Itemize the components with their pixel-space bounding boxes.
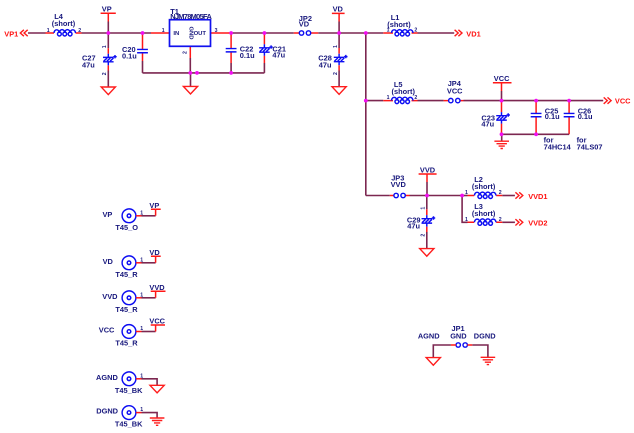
- inductor L4 (short): [46, 12, 82, 36]
- svg-text:IN: IN: [173, 31, 179, 37]
- svg-text:74HC14: 74HC14: [544, 143, 572, 152]
- junction C23 rail: [500, 132, 504, 136]
- net VVD label at testpoint: [149, 283, 165, 298]
- capacitor C29 47u: [407, 196, 435, 249]
- junction VD tap: [337, 31, 341, 35]
- svg-text:VCC: VCC: [615, 97, 631, 106]
- ground DGND at JP1: [481, 357, 496, 364]
- svg-text:(short): (short): [472, 182, 496, 191]
- wire VP1 to L4: [28, 32, 46, 34]
- wire branch corner to JP3: [366, 195, 390, 197]
- wire L5 to JP4: [418, 100, 444, 102]
- wire L1 to VD1: [418, 32, 455, 34]
- net VD power tap: [332, 5, 345, 33]
- label for 74LS07: [577, 135, 603, 151]
- svg-text:T45_O: T45_O: [115, 223, 138, 232]
- svg-text:2: 2: [183, 51, 189, 54]
- label for 74HC14: [544, 135, 572, 151]
- off-page connector VD1: [455, 29, 481, 38]
- wire vertical branch: [365, 33, 367, 196]
- svg-text:DGND: DGND: [474, 331, 496, 340]
- svg-text:VP1: VP1: [4, 29, 18, 38]
- inductor L2 (short): [462, 175, 502, 199]
- svg-text:VVD: VVD: [391, 180, 407, 189]
- svg-text:0.1u: 0.1u: [240, 51, 255, 60]
- junction rail C22: [229, 71, 233, 75]
- junction L2/L3 branch: [460, 194, 464, 198]
- jumper JP4 VCC: [444, 79, 464, 103]
- svg-text:VVD: VVD: [420, 165, 436, 174]
- svg-text:VVD: VVD: [149, 283, 165, 292]
- svg-text:VD: VD: [299, 19, 310, 28]
- wire JP4 to VCC off-page: [464, 100, 604, 102]
- svg-text:1: 1: [387, 95, 390, 101]
- ground at C23: [494, 134, 509, 148]
- net VD label at testpoint: [149, 248, 160, 263]
- capacitor C28 47u: [318, 33, 347, 87]
- svg-text:1: 1: [465, 217, 468, 223]
- svg-text:1: 1: [421, 207, 427, 210]
- svg-text:2: 2: [499, 217, 502, 223]
- svg-text:3: 3: [215, 28, 218, 34]
- wire JP1 to DGND ground: [472, 345, 488, 357]
- svg-text:DGND: DGND: [96, 407, 118, 416]
- svg-text:VVD: VVD: [102, 292, 118, 301]
- testpoint DGND T45_BK: [96, 406, 157, 429]
- testpoint VD T45_R: [103, 256, 156, 279]
- svg-text:0.1u: 0.1u: [578, 112, 593, 121]
- wire L3 to VVD2: [502, 221, 515, 223]
- wire branch to L5: [366, 100, 384, 102]
- off-page connector VVD1: [515, 192, 547, 201]
- junction VP tap: [106, 31, 110, 35]
- svg-text:T45_BK: T45_BK: [115, 420, 143, 429]
- svg-text:47u: 47u: [272, 51, 285, 60]
- svg-text:T45_R: T45_R: [115, 305, 138, 314]
- wire JP3 to L2/L3 branch: [410, 195, 463, 197]
- wire C23 ground rail: [502, 133, 570, 135]
- svg-text:2: 2: [414, 28, 417, 34]
- junction rail ground: [195, 71, 199, 75]
- junction rail T1 pin2: [188, 71, 192, 75]
- svg-text:2: 2: [78, 28, 81, 34]
- wire T1 to JP2: [231, 32, 294, 34]
- svg-text:VD: VD: [149, 248, 160, 257]
- svg-text:VD: VD: [103, 257, 114, 266]
- jumper JP1 GND: [450, 324, 472, 347]
- junction C25 tap: [534, 99, 538, 103]
- svg-text:1: 1: [162, 28, 165, 34]
- svg-text:OUT: OUT: [194, 31, 207, 37]
- junction VVD tap: [425, 194, 429, 198]
- svg-text:(short): (short): [52, 19, 76, 28]
- svg-text:2: 2: [102, 72, 108, 75]
- ground at C29: [420, 249, 434, 257]
- svg-text:74LS07: 74LS07: [577, 143, 603, 152]
- junction VCC branch: [364, 99, 368, 103]
- ground at DGND testpoint: [150, 418, 165, 425]
- svg-text:VD: VD: [333, 5, 344, 14]
- wire L4 to T1: [82, 32, 152, 34]
- wire T1 GND pin to ground rail: [189, 58, 191, 73]
- svg-text:47u: 47u: [481, 120, 494, 129]
- junction C26 tap: [567, 99, 571, 103]
- svg-text:0.1u: 0.1u: [545, 112, 560, 121]
- inductor L1 (short): [383, 13, 417, 36]
- svg-text:GND: GND: [450, 331, 467, 340]
- svg-text:(short): (short): [387, 20, 411, 29]
- off-page connector VVD2: [515, 219, 547, 228]
- inductor L5 (short): [383, 80, 417, 104]
- ground AGND at JP1: [426, 358, 440, 366]
- capacitor C22 0.1u: [226, 33, 255, 73]
- svg-text:1: 1: [47, 28, 50, 34]
- jumper JP2 VD: [294, 14, 319, 35]
- svg-text:GND: GND: [188, 26, 194, 39]
- net VP label at testpoint: [149, 201, 160, 216]
- svg-text:VD1: VD1: [466, 29, 480, 38]
- svg-text:AGND: AGND: [418, 331, 440, 340]
- testpoint VCC T45_R: [99, 325, 156, 348]
- wire ground rail: [143, 72, 265, 74]
- svg-text:VVD1: VVD1: [528, 192, 547, 201]
- svg-text:47u: 47u: [407, 222, 420, 231]
- off-page connector VP1: [4, 29, 27, 38]
- svg-text:AGND: AGND: [96, 373, 118, 382]
- svg-text:VCC: VCC: [149, 317, 165, 326]
- wire L2 to VVD1: [502, 195, 515, 197]
- svg-text:1: 1: [465, 190, 468, 196]
- inductor L3 (short): [465, 202, 502, 225]
- ground at AGND testpoint: [150, 385, 164, 393]
- junction C20 tap: [141, 31, 145, 35]
- regulator T1 NJM78M05FA: [151, 7, 231, 58]
- junction VCC tap: [500, 99, 504, 103]
- junction branch: [364, 31, 368, 35]
- svg-text:VP: VP: [102, 210, 112, 219]
- svg-text:47u: 47u: [82, 61, 95, 70]
- capacitor C20 0.1u: [122, 33, 148, 73]
- svg-text:0.1u: 0.1u: [122, 52, 137, 61]
- wire branch down to L3: [462, 196, 467, 223]
- testpoint VVD T45_R: [102, 291, 155, 314]
- svg-text:VCC: VCC: [494, 74, 510, 83]
- svg-text:T45_R: T45_R: [115, 270, 138, 279]
- junction C25 rail: [534, 132, 538, 136]
- net VP power tap: [101, 5, 116, 34]
- svg-text:T45_BK: T45_BK: [115, 386, 143, 395]
- testpoint VP T45_O: [102, 209, 155, 232]
- svg-text:(short): (short): [472, 209, 496, 218]
- svg-text:VP: VP: [149, 201, 159, 210]
- svg-text:2: 2: [421, 234, 427, 237]
- testpoint AGND T45_BK: [96, 372, 157, 395]
- jumper JP3 VVD: [390, 173, 410, 197]
- junction C22 tap: [229, 31, 233, 35]
- junction C21 tap: [263, 31, 267, 35]
- net VCC label at testpoint: [149, 317, 165, 332]
- svg-text:VCC: VCC: [447, 87, 463, 96]
- svg-text:VP: VP: [102, 5, 112, 14]
- svg-text:(short): (short): [392, 87, 416, 96]
- capacitor C26 0.1u: [564, 101, 593, 135]
- capacitor C25 0.1u: [531, 101, 560, 135]
- wire JP1 to AGND ground: [433, 345, 451, 358]
- ground at C27: [101, 87, 115, 95]
- wire JP2 to branch: [318, 32, 383, 34]
- svg-text:VVD2: VVD2: [528, 219, 547, 228]
- capacitor C21 47u: [259, 33, 286, 73]
- svg-text:1: 1: [102, 45, 108, 48]
- svg-text:VCC: VCC: [99, 326, 115, 335]
- svg-text:47u: 47u: [319, 60, 332, 69]
- net VCC power tap: [493, 74, 512, 101]
- svg-text:2: 2: [499, 190, 502, 196]
- capacitor C27 47u: [82, 33, 117, 87]
- svg-text:T45_R: T45_R: [115, 339, 138, 348]
- net VVD power tap: [419, 165, 437, 195]
- ground at T1 rail: [183, 73, 197, 94]
- off-page connector VCC: [604, 97, 631, 106]
- svg-text:2: 2: [333, 72, 339, 75]
- svg-text:NJM78M05FA: NJM78M05FA: [170, 12, 212, 21]
- capacitor C23 47u: [481, 101, 510, 135]
- ground at C28: [332, 87, 346, 95]
- svg-text:1: 1: [333, 45, 339, 48]
